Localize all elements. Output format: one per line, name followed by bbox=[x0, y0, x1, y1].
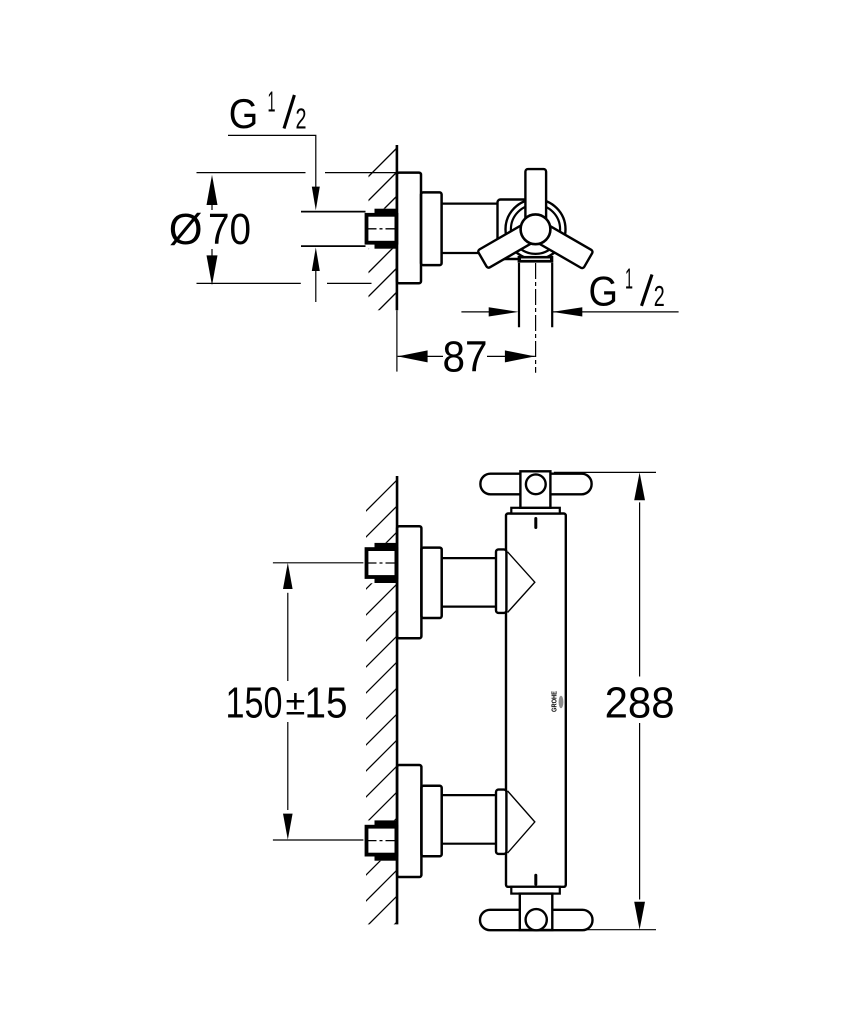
handle spoke lower-right bbox=[529, 220, 593, 269]
bottom handle hub (edge view) bbox=[520, 894, 553, 930]
svg-text:2: 2 bbox=[654, 281, 665, 313]
outlet pipe bbox=[518, 263, 520, 328]
handle spoke up bbox=[525, 169, 546, 231]
lower nipple centerline bbox=[368, 840, 397, 842]
dim 150 arrows and line bbox=[283, 563, 293, 589]
lower cone chevron bbox=[508, 791, 535, 853]
svg-text:G: G bbox=[229, 90, 259, 137]
nipple centerline (side view) bbox=[368, 228, 397, 230]
upper escutcheon step bbox=[421, 548, 441, 618]
dim O70 extension top bbox=[197, 172, 306, 174]
outlet flange bar bbox=[518, 256, 554, 263]
outlet centerline bbox=[535, 263, 537, 373]
upper cone chevron bbox=[508, 552, 535, 613]
svg-text:GROHE: GROHE bbox=[552, 691, 559, 712]
svg-text:1: 1 bbox=[268, 87, 276, 119]
dim G1/2 outlet lines/arrows bbox=[461, 311, 500, 313]
wall line (side view) bbox=[396, 145, 399, 310]
bottom index tick bbox=[534, 875, 537, 884]
mixer body (front view) bbox=[506, 514, 566, 887]
lower connection pipe (front view) bbox=[442, 794, 497, 796]
svg-text:15: 15 bbox=[305, 680, 348, 728]
union nipple body (side view) bbox=[367, 215, 397, 243]
svg-text:70: 70 bbox=[208, 206, 251, 254]
wall hatching (side view) bbox=[365, 148, 397, 348]
thread arrow below pipe bbox=[312, 247, 320, 271]
handle outer circle bbox=[506, 199, 566, 259]
upper union nut on body bbox=[496, 549, 506, 613]
supply pipe stub in wall (side view) bbox=[301, 211, 366, 213]
GROHE logo bbox=[552, 691, 564, 712]
bottom hub circle bbox=[526, 909, 547, 930]
union nipple thread bars (side view) bbox=[375, 209, 397, 215]
lower union nut on body bbox=[496, 790, 506, 854]
body bottom flange bbox=[511, 887, 560, 894]
upper escutcheon (front view) bbox=[397, 526, 421, 638]
upper nipple centerline bbox=[368, 562, 397, 564]
upper union nipple thread bars (front view) bbox=[375, 543, 397, 549]
dim 87 line and arrows bbox=[398, 355, 443, 357]
svg-text:±: ± bbox=[286, 682, 306, 723]
escutcheon step (side view) bbox=[421, 192, 442, 265]
handle spoke lower-left bbox=[477, 220, 541, 269]
escutcheon (side view) bbox=[397, 173, 421, 284]
lower union nipple thread bars (front view) bbox=[375, 820, 397, 826]
svg-text:1: 1 bbox=[625, 263, 633, 295]
lower union nipple body (front view) bbox=[367, 827, 397, 855]
lower escutcheon step bbox=[421, 786, 441, 856]
svg-text:Ø: Ø bbox=[169, 206, 203, 254]
dim 288 arrows and line bbox=[634, 472, 645, 500]
bottom handle bar (edge view) bbox=[480, 910, 593, 930]
top handle hub (edge view) bbox=[520, 471, 550, 508]
valve body (side view) bbox=[498, 200, 540, 260]
dim 288 extension bottom bbox=[554, 929, 656, 931]
handle middle circle bbox=[511, 205, 560, 254]
dim 288 extension top bbox=[554, 471, 656, 473]
upper connection pipe (front view) bbox=[442, 557, 497, 559]
wall hatching (front view) bbox=[365, 480, 397, 954]
top handle bar (edge view) bbox=[480, 474, 591, 495]
dim O70 arrows bbox=[207, 175, 218, 205]
lower escutcheon (front view) bbox=[397, 765, 421, 877]
wall line (front view) bbox=[396, 476, 399, 924]
svg-text:87: 87 bbox=[443, 333, 488, 381]
dim 150 extension bottom bbox=[273, 839, 364, 841]
svg-text:150: 150 bbox=[226, 680, 283, 728]
svg-text:288: 288 bbox=[605, 680, 675, 728]
dim O70 extension bottom bbox=[197, 282, 301, 284]
top hub circle bbox=[526, 474, 546, 494]
svg-text:G: G bbox=[589, 267, 619, 314]
dim 150 extension top bbox=[273, 562, 364, 564]
connection pipe (side view) bbox=[442, 203, 498, 205]
leader G1/2 top bbox=[228, 135, 316, 187]
upper union nipple body (front view) bbox=[367, 549, 397, 577]
handle hub circle bbox=[521, 214, 551, 244]
body top flange bbox=[511, 508, 560, 514]
top index tick bbox=[534, 519, 537, 528]
dim 87 wall extension bbox=[396, 310, 398, 371]
svg-text:2: 2 bbox=[296, 103, 307, 135]
